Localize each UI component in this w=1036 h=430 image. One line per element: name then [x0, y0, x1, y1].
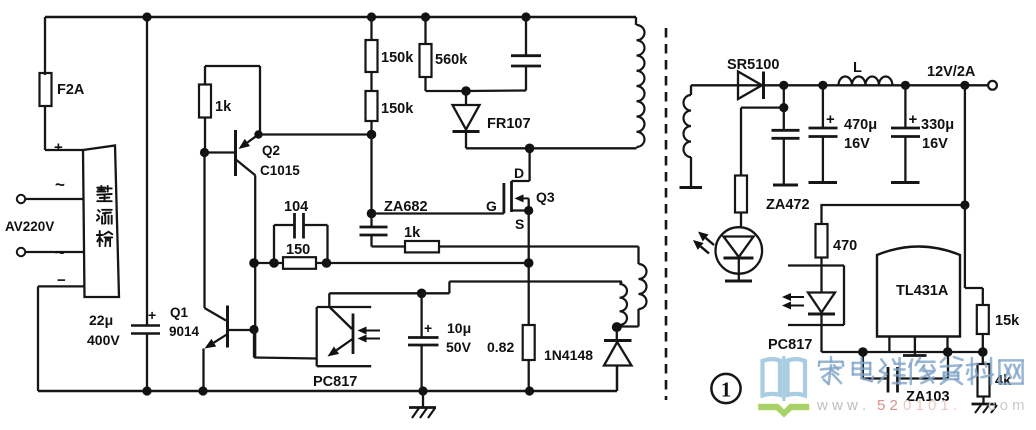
svg-text:PC817: PC817 [768, 337, 812, 353]
svg-text:~: ~ [55, 175, 65, 194]
svg-text:9014: 9014 [169, 324, 200, 339]
svg-text:+: + [826, 111, 835, 128]
svg-text:104: 104 [284, 199, 308, 215]
svg-text:16V: 16V [844, 136, 870, 152]
svg-text:400V: 400V [87, 332, 120, 348]
svg-text:+: + [54, 139, 63, 156]
svg-text:15k: 15k [995, 313, 1020, 329]
svg-text:50V: 50V [446, 339, 472, 355]
svg-text:330μ: 330μ [921, 117, 954, 133]
svg-text:Q3: Q3 [536, 189, 555, 205]
svg-text:470μ: 470μ [844, 117, 877, 133]
svg-text:1k: 1k [404, 225, 421, 241]
svg-text:c o m: c o m [988, 397, 1025, 414]
svg-text:F2A: F2A [57, 82, 85, 98]
svg-text:PC817: PC817 [313, 374, 357, 390]
svg-text:560k: 560k [435, 52, 468, 68]
svg-text:C1015: C1015 [260, 163, 300, 178]
svg-text:+: + [148, 307, 156, 323]
svg-text:150k: 150k [381, 101, 414, 117]
svg-text:16V: 16V [922, 136, 948, 152]
svg-text:22μ: 22μ [89, 312, 113, 328]
svg-text:S: S [515, 216, 524, 232]
svg-text:1N4148: 1N4148 [544, 347, 593, 363]
svg-text:G: G [486, 198, 497, 214]
svg-text:1k: 1k [215, 99, 232, 115]
svg-text:+: + [424, 320, 432, 336]
svg-text:AV220V: AV220V [5, 219, 54, 234]
svg-text:L: L [853, 60, 862, 76]
svg-text:FR107: FR107 [487, 116, 531, 132]
svg-text:0 1 0 1 .: 0 1 0 1 . [903, 397, 957, 414]
svg-text:ZA472: ZA472 [766, 197, 810, 213]
svg-text:Q1: Q1 [170, 305, 189, 320]
svg-text:+: + [909, 111, 918, 128]
svg-text:0.82: 0.82 [487, 339, 514, 355]
svg-text:~: ~ [55, 243, 65, 262]
svg-text:TL431A: TL431A [896, 283, 949, 299]
svg-text:SR5100: SR5100 [727, 57, 779, 73]
svg-text:150k: 150k [381, 50, 414, 66]
svg-text:D: D [514, 165, 524, 181]
svg-text:12V/2A: 12V/2A [927, 64, 976, 80]
svg-text:w w w .: w w w . [816, 397, 866, 414]
svg-text:1: 1 [721, 378, 732, 402]
svg-text:5 2: 5 2 [877, 397, 898, 414]
svg-text:470: 470 [833, 238, 857, 254]
svg-text:ZA682: ZA682 [384, 199, 428, 215]
svg-text:Q2: Q2 [262, 143, 280, 158]
svg-text:10μ: 10μ [447, 320, 471, 336]
svg-text:150: 150 [286, 242, 310, 258]
